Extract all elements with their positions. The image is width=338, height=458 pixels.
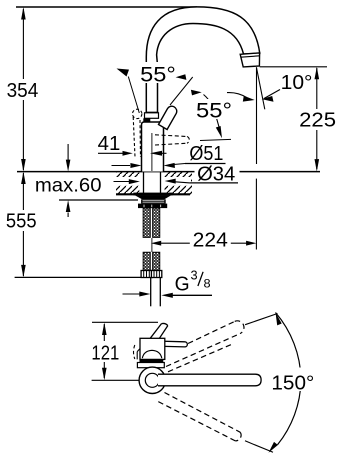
shank through counter xyxy=(144,172,161,195)
counter top surface line xyxy=(17,171,320,173)
water stream vertical line xyxy=(256,68,258,165)
mounting plate under counter xyxy=(133,193,172,209)
label diameter 34 xyxy=(112,163,240,185)
handle bar (top view) xyxy=(152,341,187,347)
bottom reference line xyxy=(15,276,160,278)
spout bar (top view) xyxy=(158,374,261,386)
dashed spout upper position xyxy=(166,321,244,372)
body (top view) xyxy=(137,338,165,359)
dashed handle (closed position, pointing right) xyxy=(155,135,189,145)
label diameter 51 xyxy=(112,143,226,168)
dimension 41 xyxy=(98,133,167,156)
riser cap line xyxy=(146,111,159,113)
svg-text:G: G xyxy=(175,273,190,296)
svg-text:55°: 55° xyxy=(140,64,176,87)
svg-text:354: 354 xyxy=(7,80,39,102)
svg-text:55°: 55° xyxy=(196,100,232,123)
collar under riser xyxy=(145,113,159,119)
dashed handle axis line xyxy=(128,77,139,114)
svg-text:8: 8 xyxy=(204,278,211,290)
arc from handle axis down to closed-handle line xyxy=(204,95,220,129)
svg-text:555: 555 xyxy=(6,211,37,233)
dimension 224 xyxy=(151,179,257,252)
braided hose upper segments xyxy=(143,208,160,237)
base band (top view) xyxy=(140,359,164,362)
extension line from closed handle xyxy=(200,139,231,140)
arc extension lines xyxy=(245,314,277,325)
svg-text:121: 121 xyxy=(91,342,119,364)
svg-text:150°: 150° xyxy=(271,373,314,395)
10 deg label and leader xyxy=(262,72,313,102)
center axis line between hoses xyxy=(151,238,153,252)
svg-text:3: 3 xyxy=(191,268,198,282)
dashed spout lower position xyxy=(158,393,241,441)
solid handle (lever up-right) xyxy=(159,106,177,129)
top reference line xyxy=(16,6,197,8)
handle axis line xyxy=(170,77,193,105)
angle label 55 deg (second) + arc xyxy=(194,93,255,123)
svg-text:10°: 10° xyxy=(281,72,313,94)
dimension 121 xyxy=(91,323,119,381)
pull-out spray hose xyxy=(151,278,161,307)
dimension 225 xyxy=(299,67,336,172)
svg-text:Ø51: Ø51 xyxy=(189,143,223,165)
150 deg swing arc xyxy=(268,313,316,453)
svg-text:41: 41 xyxy=(98,133,121,155)
G 3/8 label xyxy=(123,268,213,298)
aerator at spout end xyxy=(240,53,259,67)
lever tip (top view) xyxy=(148,323,168,341)
dimension max.60 xyxy=(35,144,102,217)
counter hatched slab xyxy=(116,172,192,195)
dashed arc left of body xyxy=(134,345,135,359)
angle label 55 deg (first) xyxy=(117,62,202,95)
svg-text:225: 225 xyxy=(299,110,336,132)
swivel circles (top view) xyxy=(139,367,165,393)
dimension 354 xyxy=(7,7,39,172)
svg-text:224: 224 xyxy=(193,230,228,252)
dashed handle (left position) xyxy=(133,109,142,157)
svg-text:max.60: max.60 xyxy=(35,174,102,196)
dimension 555 xyxy=(6,172,37,278)
hose nuts xyxy=(141,271,162,278)
spout tube (goose-neck) xyxy=(146,7,259,114)
body xyxy=(142,122,164,172)
counter bottom phantom line (max.60) xyxy=(59,199,138,201)
horizontal extension line from outlet xyxy=(260,66,327,68)
svg-text:Ø34: Ø34 xyxy=(197,163,235,185)
water stream 10 deg tilted line xyxy=(256,67,264,109)
braided hose lower segments xyxy=(143,252,160,270)
121 extension lines xyxy=(92,321,158,323)
